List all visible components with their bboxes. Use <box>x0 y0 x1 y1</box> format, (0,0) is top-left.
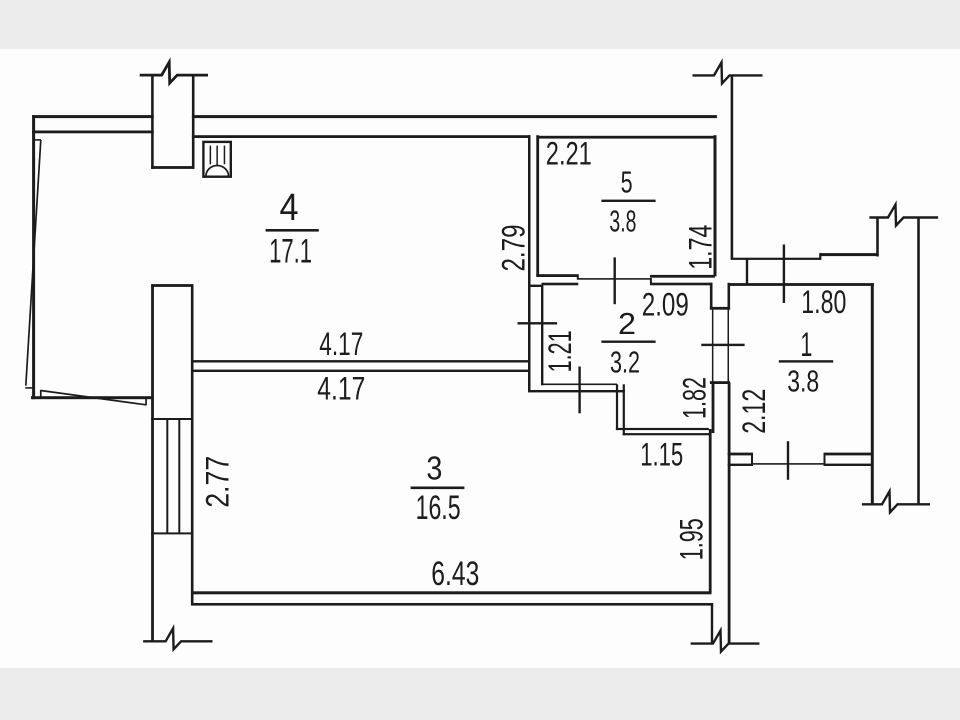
dim tick room1 bottom door <box>787 441 789 480</box>
svg-text:2.12: 2.12 <box>736 389 772 434</box>
window of room 3: top tick <box>151 418 193 420</box>
corridor lower left wall to break <box>711 604 713 643</box>
corridor left wall <box>709 429 712 593</box>
door thin jamb right <box>728 309 730 381</box>
svg-text:2.21: 2.21 <box>546 135 592 171</box>
left exterior wall of room 4 <box>32 115 35 399</box>
room1 bottom door threshold thin <box>752 463 825 465</box>
outer wall right line (pier/room3 side) <box>191 286 194 606</box>
break symbol bottom-right outer <box>862 491 930 512</box>
right boundary long vertical <box>917 218 920 505</box>
room1 top door jamb <box>746 258 748 284</box>
vent icon inner vertical 3 <box>224 146 226 165</box>
svg-text:3.8: 3.8 <box>609 203 636 238</box>
top outer wall, upper line right segment <box>192 115 717 118</box>
building bottom wall lower line <box>191 603 713 606</box>
svg-text:17.1: 17.1 <box>269 232 312 270</box>
room1 bottom wall upper line left segment <box>728 453 753 456</box>
break symbol bottom corridor <box>691 631 760 652</box>
svg-text:2.09: 2.09 <box>642 287 689 323</box>
top grey band <box>0 0 960 49</box>
step wall horizontal inner <box>623 433 712 435</box>
svg-text:3.8: 3.8 <box>787 364 819 399</box>
top wall inner line, over room 5 <box>536 136 715 139</box>
room1 top wall step jog vertical <box>819 253 821 260</box>
dim tick room5 door <box>614 257 616 304</box>
room1 top wall thick right segment <box>820 253 878 256</box>
dim tick room3/room2 door <box>578 367 580 414</box>
svg-text:4.17: 4.17 <box>319 326 363 362</box>
staircase wall outer line (from top break) <box>731 75 734 258</box>
room1 right wall <box>871 285 874 505</box>
lower jamb stub top edge <box>710 381 730 384</box>
ventilation duct icon box <box>203 142 230 177</box>
svg-text:2.77: 2.77 <box>200 456 236 508</box>
svg-text:1.82: 1.82 <box>676 377 712 419</box>
balcony railing slanted line (left) <box>26 140 41 386</box>
svg-text:3: 3 <box>426 449 442 486</box>
vent shaft right side below wall <box>192 117 195 169</box>
room2 left wall top stub <box>528 285 543 287</box>
vent icon inner vertical 2 <box>216 146 218 166</box>
svg-text:16.5: 16.5 <box>416 489 461 527</box>
window bottom tick <box>151 532 193 534</box>
room5 bottom wall upper line right segment <box>650 275 715 278</box>
dim label 1.21 (rotated) <box>542 330 578 372</box>
room1 bottom wall lower line right segment <box>824 464 874 466</box>
wall room4/room5 right line <box>536 135 539 277</box>
vent icon arc <box>206 166 229 177</box>
svg-text:2.79: 2.79 <box>496 225 532 272</box>
svg-text:4.17: 4.17 <box>317 371 365 407</box>
svg-text:6.43: 6.43 <box>431 555 479 593</box>
partition wall 4/3 upper line <box>192 360 530 362</box>
dim label 1.74 (rotated) <box>683 225 719 270</box>
room5 door right jamb jog <box>650 278 652 285</box>
dim label 2.79 (rotated) <box>496 225 532 272</box>
building bottom wall upper line <box>191 591 711 594</box>
balcony bottom slant left tick <box>40 390 42 398</box>
top outer wall, upper line left segment <box>32 115 154 118</box>
room 4 fraction bar <box>266 229 319 232</box>
room1 top wall lower line <box>728 283 874 286</box>
dim tick door rooms2-1 <box>701 344 744 346</box>
step wall vertical outer <box>616 384 618 430</box>
svg-text:1: 1 <box>800 326 812 364</box>
room5 bottom wall upper line left segment <box>536 274 578 277</box>
wall rooms2-1 right line upper corner vertical <box>728 283 731 310</box>
partition wall 4/3 lower line <box>192 370 530 372</box>
door jamb stub bottom edge (upper door) <box>710 307 730 310</box>
dim tick room1 top door <box>783 245 785 304</box>
room1 top wall upper line <box>731 258 821 260</box>
svg-text:1.95: 1.95 <box>673 518 709 560</box>
wall rooms2-1 left line lower segment <box>712 383 715 433</box>
room2 bottom wall lower line <box>528 390 625 392</box>
room5 right wall (room5 side line) <box>714 135 717 276</box>
balcony bottom slant right tick <box>145 398 147 406</box>
room1 bottom wall lower line left segment <box>728 464 753 466</box>
room 2 fraction bar <box>601 341 655 343</box>
shaft wall right vertical <box>192 75 195 116</box>
break symbol top-left (shaft continues up) <box>140 62 208 83</box>
room2 bottom wall upper thin line <box>542 384 617 386</box>
balcony railing bottom-left tick <box>25 387 32 389</box>
pier top edge (between rooms 4 and 3) <box>151 284 193 287</box>
balcony railing bottom slanted line <box>41 391 146 405</box>
break symbol top-right <box>693 62 763 83</box>
entry wall vertical to break <box>876 218 879 257</box>
shaft wall left vertical <box>151 75 154 116</box>
vent icon inner vertical 1 <box>210 146 212 165</box>
vent shaft left side below wall <box>151 117 154 169</box>
break symbol right (entry) <box>869 205 938 226</box>
svg-text:2: 2 <box>618 306 636 341</box>
room2 left wall right line <box>541 286 543 386</box>
window inner line 1 <box>166 419 168 533</box>
top wall inner line, left of vent shaft <box>32 131 154 134</box>
svg-text:3.2: 3.2 <box>610 344 640 379</box>
dim label 1.82 (rotated) <box>676 377 712 419</box>
dim label 1.95 (rotated) <box>673 518 709 560</box>
svg-text:4: 4 <box>280 187 299 229</box>
balcony railing top tick <box>33 139 41 141</box>
room 5 fraction bar <box>601 200 655 202</box>
wall room4/room5 left line <box>528 135 531 392</box>
wall rooms2-1: room5 lower line corner vertical <box>710 283 713 310</box>
door thin jamb left <box>712 309 714 381</box>
svg-text:1.74: 1.74 <box>683 225 719 270</box>
room5 door threshold thin line <box>577 278 652 280</box>
top wall inner line, vent shaft to room5 wall <box>192 135 531 138</box>
dim label 2.77 (rotated) <box>200 456 236 508</box>
svg-text:1.21: 1.21 <box>542 330 578 372</box>
room 1 fraction bar <box>779 360 833 362</box>
room1 bottom door left jamb <box>751 454 753 464</box>
bottom grey band <box>0 668 960 720</box>
room 3 fraction bar <box>411 487 465 490</box>
svg-text:1.80: 1.80 <box>801 284 846 320</box>
room1 bottom wall upper line right segment <box>824 453 874 456</box>
dim tick 1.21 on room2 left wall <box>518 322 558 324</box>
svg-text:5: 5 <box>621 164 633 199</box>
room5 door left jamb jog <box>577 275 579 280</box>
outer wall left line (pier down to break) <box>151 286 154 642</box>
break symbol bottom-left <box>143 628 212 649</box>
balcony bottom wall <box>31 396 154 399</box>
step wall horizontal outer <box>616 428 709 430</box>
wall rooms2-1 / corridor right line <box>728 383 731 644</box>
room5 bottom wall lower line right segment <box>652 283 713 286</box>
vent shaft bottom edge <box>151 166 194 169</box>
room5 bottom wall lower line left segment <box>542 283 579 286</box>
window inner line 2 <box>178 419 180 533</box>
svg-text:1.15: 1.15 <box>640 437 683 473</box>
dim label 2.12 (rotated) <box>736 389 772 434</box>
room1 bottom door right jamb <box>824 454 826 464</box>
step wall vertical inner <box>623 384 625 435</box>
